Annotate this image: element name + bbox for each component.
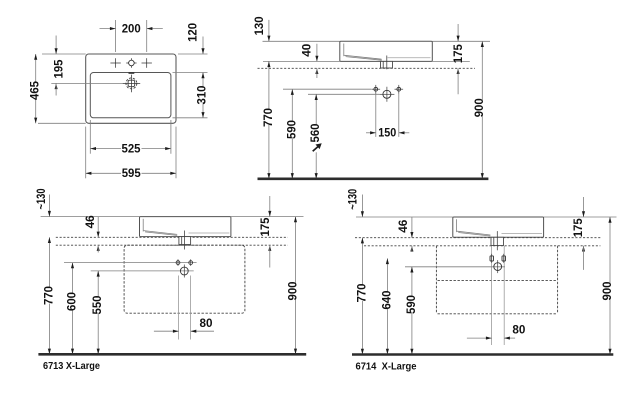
svg-text:770: 770: [261, 108, 275, 127]
dim 900: [609, 217, 611, 284]
dim 80: [154, 330, 179, 332]
ext line supply level: [64, 262, 197, 264]
washbasin body (elevation): [340, 41, 433, 61]
waste connection circle: [497, 260, 499, 273]
dim 195: [55, 36, 57, 55]
dim 175 lower arrow: [457, 68, 460, 74]
drain axis: [386, 56, 388, 70]
svg-text:600: 600: [65, 292, 79, 311]
dim 175 line upper: [269, 196, 271, 217]
dim 770: [48, 237, 50, 288]
dim 200 extension line right: [146, 20, 148, 52]
svg-text:900: 900: [600, 281, 614, 300]
svg-text:640: 640: [379, 290, 393, 309]
basin interior slope: [457, 231, 491, 235]
svg-text:525: 525: [122, 141, 141, 155]
svg-text:175: 175: [258, 217, 272, 236]
svg-text:310: 310: [195, 85, 209, 104]
basin interior right floor: [388, 57, 431, 59]
dim 525: [90, 148, 121, 150]
washbasin inner basin (plan): [90, 73, 171, 118]
console dashed bottom line: [438, 313, 557, 315]
dashed line B 46-below: [364, 245, 600, 247]
svg-text:590: 590: [284, 120, 298, 139]
basin interior left wall: [456, 219, 458, 232]
washbasin body (elevation): [453, 217, 544, 237]
console dashed shelf line: [438, 280, 557, 282]
trap inner line: [181, 237, 183, 245]
dim 770: [361, 238, 363, 286]
dim 595 extension lines: [85, 127, 87, 179]
washbasin outer rim (plan): [86, 54, 176, 123]
dim 46 lower arrow: [97, 245, 100, 251]
dim 310 extension lines: [178, 53, 208, 55]
svg-text:6714 X-Large: 6714 X-Large: [356, 362, 418, 373]
dashed 40-below line: [258, 67, 476, 69]
dim 770: [268, 61, 270, 110]
dim 900: [481, 41, 483, 100]
dim 525 extension lines: [89, 120, 91, 154]
dim 900: [295, 217, 297, 284]
svg-text:~130: ~130: [34, 188, 48, 209]
slope arrow on dim 560: [313, 146, 319, 151]
supply connection right: [395, 88, 404, 90]
dim ~130 line: [48, 195, 50, 217]
dim 200: [100, 28, 116, 30]
console dashed left edge: [435, 246, 437, 314]
svg-text:900: 900: [286, 281, 300, 300]
dim 195 extension at drain level: [51, 82, 122, 84]
floor line: [38, 353, 306, 356]
dim 150: [366, 132, 376, 134]
dim 600: [72, 263, 74, 294]
svg-text:175: 175: [571, 218, 585, 237]
basin interior slope: [144, 231, 178, 235]
overflow slot: [129, 72, 135, 74]
console dashed right edge: [557, 246, 559, 314]
svg-text:40: 40: [300, 44, 314, 57]
svg-text:80: 80: [200, 316, 213, 330]
supply connection left: [490, 256, 494, 261]
dim 640: [386, 258, 388, 292]
drain trap: [381, 61, 393, 68]
drain trap: [491, 237, 504, 245]
drain inner rounded square: [128, 80, 135, 87]
trap inner line: [382, 61, 384, 68]
waste connection circle: [183, 265, 185, 278]
svg-text:195: 195: [52, 59, 66, 78]
svg-text:560: 560: [308, 123, 322, 142]
floor line: [352, 353, 613, 356]
basin interior right floor: [189, 232, 230, 234]
drain pipe lines: [491, 246, 493, 345]
770 underside line right segment: [432, 60, 470, 62]
drain axis: [184, 231, 186, 250]
drain axis: [496, 231, 498, 250]
dim 130 line: [268, 20, 270, 41]
dim 150 extension lines: [375, 94, 377, 137]
ext line drain level: [405, 266, 505, 268]
supply connection left: [176, 261, 180, 265]
supply connection left: [372, 88, 381, 90]
drain trap: [179, 237, 191, 245]
svg-text:46: 46: [83, 215, 97, 228]
dim 200 extension line left: [115, 20, 117, 52]
dim 465: [35, 54, 37, 83]
svg-text:200: 200: [122, 21, 141, 35]
basin interior right floor: [502, 233, 543, 235]
basin interior left wall: [142, 219, 144, 232]
dashed line A underside: [56, 236, 288, 238]
dim 80: [467, 337, 492, 339]
drain crosshair: [123, 82, 141, 84]
supply connection right: [189, 261, 193, 265]
svg-text:770: 770: [41, 286, 55, 305]
drain pipe lines: [178, 276, 180, 340]
dim 40 line upper: [316, 44, 318, 62]
washbasin body (elevation): [140, 217, 231, 237]
svg-text:120: 120: [186, 23, 200, 42]
900 level line right segment: [544, 216, 617, 218]
dim 560: [315, 94, 317, 125]
dim 175 lower arrow: [268, 245, 271, 251]
dim 175 line upper: [583, 197, 585, 217]
900 level line right segment: [432, 40, 490, 42]
ext line drain level: [308, 93, 379, 95]
trap inner line: [493, 237, 495, 245]
basin interior left wall: [343, 44, 345, 57]
svg-text:6713 X-Large: 6713 X-Large: [43, 361, 101, 372]
900 level line left segment: [356, 216, 453, 218]
svg-text:~130: ~130: [345, 189, 359, 210]
dim 465 top extension: [42, 53, 86, 55]
dashed line B 46-below: [56, 244, 288, 246]
svg-text:465: 465: [28, 81, 42, 100]
dashed line A underside: [355, 237, 600, 239]
faucet hole center with circle: [126, 62, 136, 64]
dim 46 line upper: [411, 217, 413, 238]
dim 590: [291, 89, 293, 122]
drain outer circle dashed: [126, 78, 137, 89]
svg-text:900: 900: [472, 98, 486, 117]
faucet hole left: [110, 62, 120, 64]
dim 310: [202, 73, 204, 89]
dim 46 lower arrow: [410, 246, 413, 252]
supply connection right: [502, 256, 506, 261]
ext line drain level: [91, 270, 194, 272]
svg-text:175: 175: [451, 44, 465, 63]
dim 175 lower arrow: [582, 246, 585, 252]
svg-text:130: 130: [252, 16, 266, 35]
dim 175 line upper: [457, 24, 459, 41]
svg-text:46: 46: [396, 219, 410, 232]
vanity cabinet dashed outline: [124, 245, 245, 313]
faucet hole right: [142, 62, 152, 64]
waste connection circle: [379, 93, 394, 95]
dim 590: [411, 267, 413, 297]
svg-text:590: 590: [404, 295, 418, 314]
svg-text:595: 595: [122, 166, 141, 180]
floor line: [258, 178, 489, 181]
svg-text:80: 80: [512, 323, 525, 337]
ext line supply level: [283, 88, 371, 90]
svg-text:770: 770: [354, 283, 368, 302]
900 level line left segment: [41, 216, 140, 218]
dim 465 bottom extension: [38, 122, 86, 124]
svg-text:550: 550: [90, 295, 104, 314]
900 level line left segment: [263, 40, 340, 42]
900 level line right segment: [231, 216, 304, 218]
770 underside line left segment: [263, 60, 340, 62]
dim 550: [97, 271, 99, 298]
dim 40 lower arrow: [315, 68, 318, 74]
svg-text:150: 150: [378, 126, 396, 140]
dim ~130 line: [361, 195, 363, 218]
dim 595: [86, 172, 121, 174]
basin interior slope: [344, 55, 382, 59]
dim 46 line upper: [97, 217, 99, 238]
